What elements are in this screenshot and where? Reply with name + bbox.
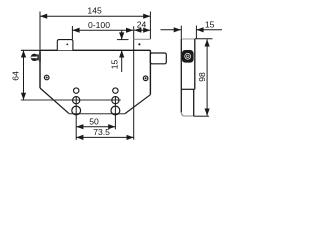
ext line top — [195, 38, 213, 40]
bottom edge — [69, 113, 125, 115]
svg-text:145: 145 — [87, 6, 102, 16]
dim line 145 — [40, 15, 150, 17]
svg-text:98: 98 — [197, 72, 207, 82]
slider block — [57, 40, 73, 51]
dim line 0-100 — [72, 29, 133, 31]
side inner vertical — [193, 89, 195, 116]
right tab — [150, 53, 166, 64]
step screw dot — [138, 43, 140, 45]
ext line right — [114, 97, 116, 129]
lower arrow — [121, 50, 123, 72]
ext line top — [21, 49, 40, 51]
svg-text:24: 24 — [137, 19, 147, 29]
svg-text:0-100: 0-100 — [88, 20, 110, 30]
svg-text:50: 50 — [89, 116, 99, 126]
slider block dot — [66, 44, 68, 46]
side knob center dot — [187, 55, 189, 57]
hole column left: bottom hole — [72, 106, 81, 115]
svg-text:15: 15 — [109, 60, 119, 70]
side right edge — [194, 39, 196, 89]
body right edge — [149, 50, 151, 94]
ext line right — [149, 12, 151, 39]
ext line right — [195, 26, 197, 39]
side knob face — [184, 53, 191, 60]
back plate bottom line — [21, 99, 121, 101]
hole column right: bottom hole — [111, 106, 120, 115]
upper arrow — [121, 30, 123, 39]
left chamfer — [40, 88, 69, 114]
svg-text:73.5: 73.5 — [93, 127, 110, 137]
small hole right — [143, 76, 148, 81]
body left edge — [39, 50, 41, 88]
ext line bottom — [194, 115, 209, 117]
body top edge — [40, 49, 150, 51]
hole column left: middle hole — [73, 97, 80, 104]
step top edge — [134, 38, 151, 40]
ext line at slider — [71, 26, 73, 39]
dim line 98 — [206, 39, 208, 115]
ext line left — [180, 26, 182, 39]
ext line left — [39, 12, 41, 50]
side knob body — [182, 50, 194, 63]
ext line left — [75, 97, 77, 140]
svg-text:64: 64 — [10, 71, 20, 81]
hole column right: top small hole — [113, 88, 118, 93]
ext tick — [117, 39, 129, 41]
left leader — [161, 29, 181, 31]
dim line 50 — [76, 126, 115, 128]
side step line — [181, 88, 195, 90]
dim line 24 — [134, 29, 150, 31]
left clamp knob — [31, 54, 38, 61]
dim line 64 — [23, 50, 25, 100]
hole column right: middle hole — [112, 97, 119, 104]
small hole left — [44, 75, 49, 80]
right chamfer — [125, 95, 150, 114]
hole column left: top small hole — [74, 88, 79, 93]
svg-text:15: 15 — [205, 19, 215, 29]
side left edge — [180, 39, 182, 113]
right leader — [196, 29, 222, 31]
dim line 73.5 — [76, 136, 134, 138]
inner vertical edge / 73.5 extension — [133, 26, 135, 139]
side top edge — [181, 38, 195, 40]
